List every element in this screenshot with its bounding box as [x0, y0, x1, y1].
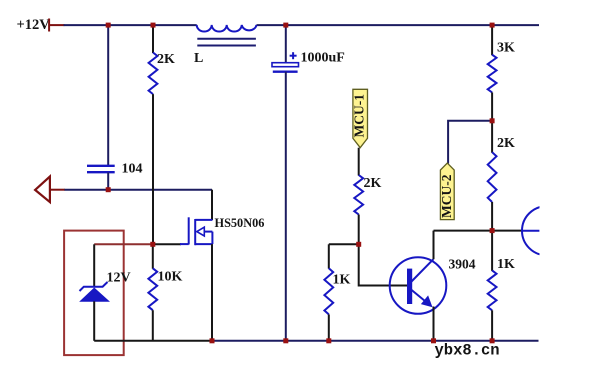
junction gate node: [150, 242, 155, 247]
svg-text:ybx8.cn: ybx8.cn: [435, 342, 500, 360]
junction top rail / column A: [106, 23, 111, 28]
port flag MCU-2: [439, 163, 454, 220]
capacitor 1000uF: [272, 25, 345, 72]
capacitor 104: [87, 162, 143, 177]
svg-text:L: L: [194, 51, 203, 66]
wire top rail right: [257, 24, 540, 26]
resistor 10K: [148, 244, 182, 340]
junction top rail / 1000uF column: [283, 23, 288, 28]
svg-text:MCU-1: MCU-1: [352, 94, 367, 138]
junction bottom rail / emitter: [431, 338, 436, 343]
resistor 3K: [488, 41, 515, 93]
wire column C lower: [285, 72, 287, 341]
wire top rail left: [64, 24, 197, 26]
svg-text:2K: 2K: [157, 52, 175, 67]
resistor 2K (MCU-1): [354, 175, 381, 244]
junction base node: [356, 242, 361, 247]
wire column A: [107, 25, 109, 165]
svg-text:2K: 2K: [364, 176, 382, 191]
junction bottom rail / 1000uF column: [283, 338, 288, 343]
wire emitter down: [433, 307, 435, 341]
wire mosfet source down: [211, 244, 213, 341]
wire right column mid1: [491, 92, 493, 152]
transistor Q1 3904: [390, 257, 476, 314]
wire right column bottom: [491, 310, 493, 341]
svg-text:1K: 1K: [497, 257, 515, 272]
wire base drop: [359, 244, 408, 285]
junction top rail / 2K column: [151, 23, 156, 28]
wire base node: [329, 243, 359, 245]
wire bottom rail right: [213, 340, 539, 342]
svg-text:1000uF: 1000uF: [301, 51, 345, 66]
wire drain drop: [211, 190, 213, 220]
resistor 1K (left): [324, 244, 350, 340]
wire right column mid2: [491, 202, 493, 271]
svg-text:12V: 12V: [107, 271, 131, 286]
junction collector node: [490, 228, 495, 233]
junction bottom rail / mosfet source: [210, 338, 215, 343]
wire column A lower: [107, 173, 109, 190]
junction arrow net / column A: [106, 187, 111, 192]
zener diode 12V: [80, 244, 131, 340]
svg-text:MCU-2: MCU-2: [439, 174, 454, 218]
svg-text:10K: 10K: [158, 270, 183, 285]
resistor 2K (right): [488, 136, 515, 202]
input arrow port: [35, 177, 65, 203]
svg-text:+12V: +12V: [17, 17, 51, 33]
svg-text:2K: 2K: [497, 136, 515, 151]
svg-text:104: 104: [122, 162, 143, 177]
port flag MCU-1: [352, 89, 368, 147]
junction bottom rail / 1K left: [326, 338, 331, 343]
wire MCU-1 lead: [358, 148, 360, 176]
junction MCU-2 node: [490, 118, 495, 123]
wire bottom rail left: [94, 340, 213, 342]
annotation red box: [64, 231, 124, 356]
svg-text:HS50N06: HS50N06: [215, 216, 265, 230]
resistor 2K (left): [149, 25, 175, 244]
wire right column: [491, 25, 493, 55]
junction top rail / right column: [490, 23, 495, 28]
inductor L: [194, 25, 257, 66]
wire MCU-2 branch: [448, 121, 492, 164]
wire arrow net: [65, 189, 213, 191]
junction bottom rail / 1K right: [490, 338, 495, 343]
svg-text:3904: 3904: [449, 257, 476, 272]
svg-text:1K: 1K: [333, 273, 351, 288]
power port +12V: [17, 17, 65, 33]
svg-text:3K: 3K: [497, 41, 515, 56]
mosfet Q HS50N06: [153, 216, 264, 245]
wire collector row: [434, 230, 523, 232]
wire collector up: [433, 231, 435, 260]
resistor 1K (right): [488, 257, 515, 310]
transistor Q2 (partial): [522, 206, 571, 255]
wire red gate link: [94, 243, 153, 245]
